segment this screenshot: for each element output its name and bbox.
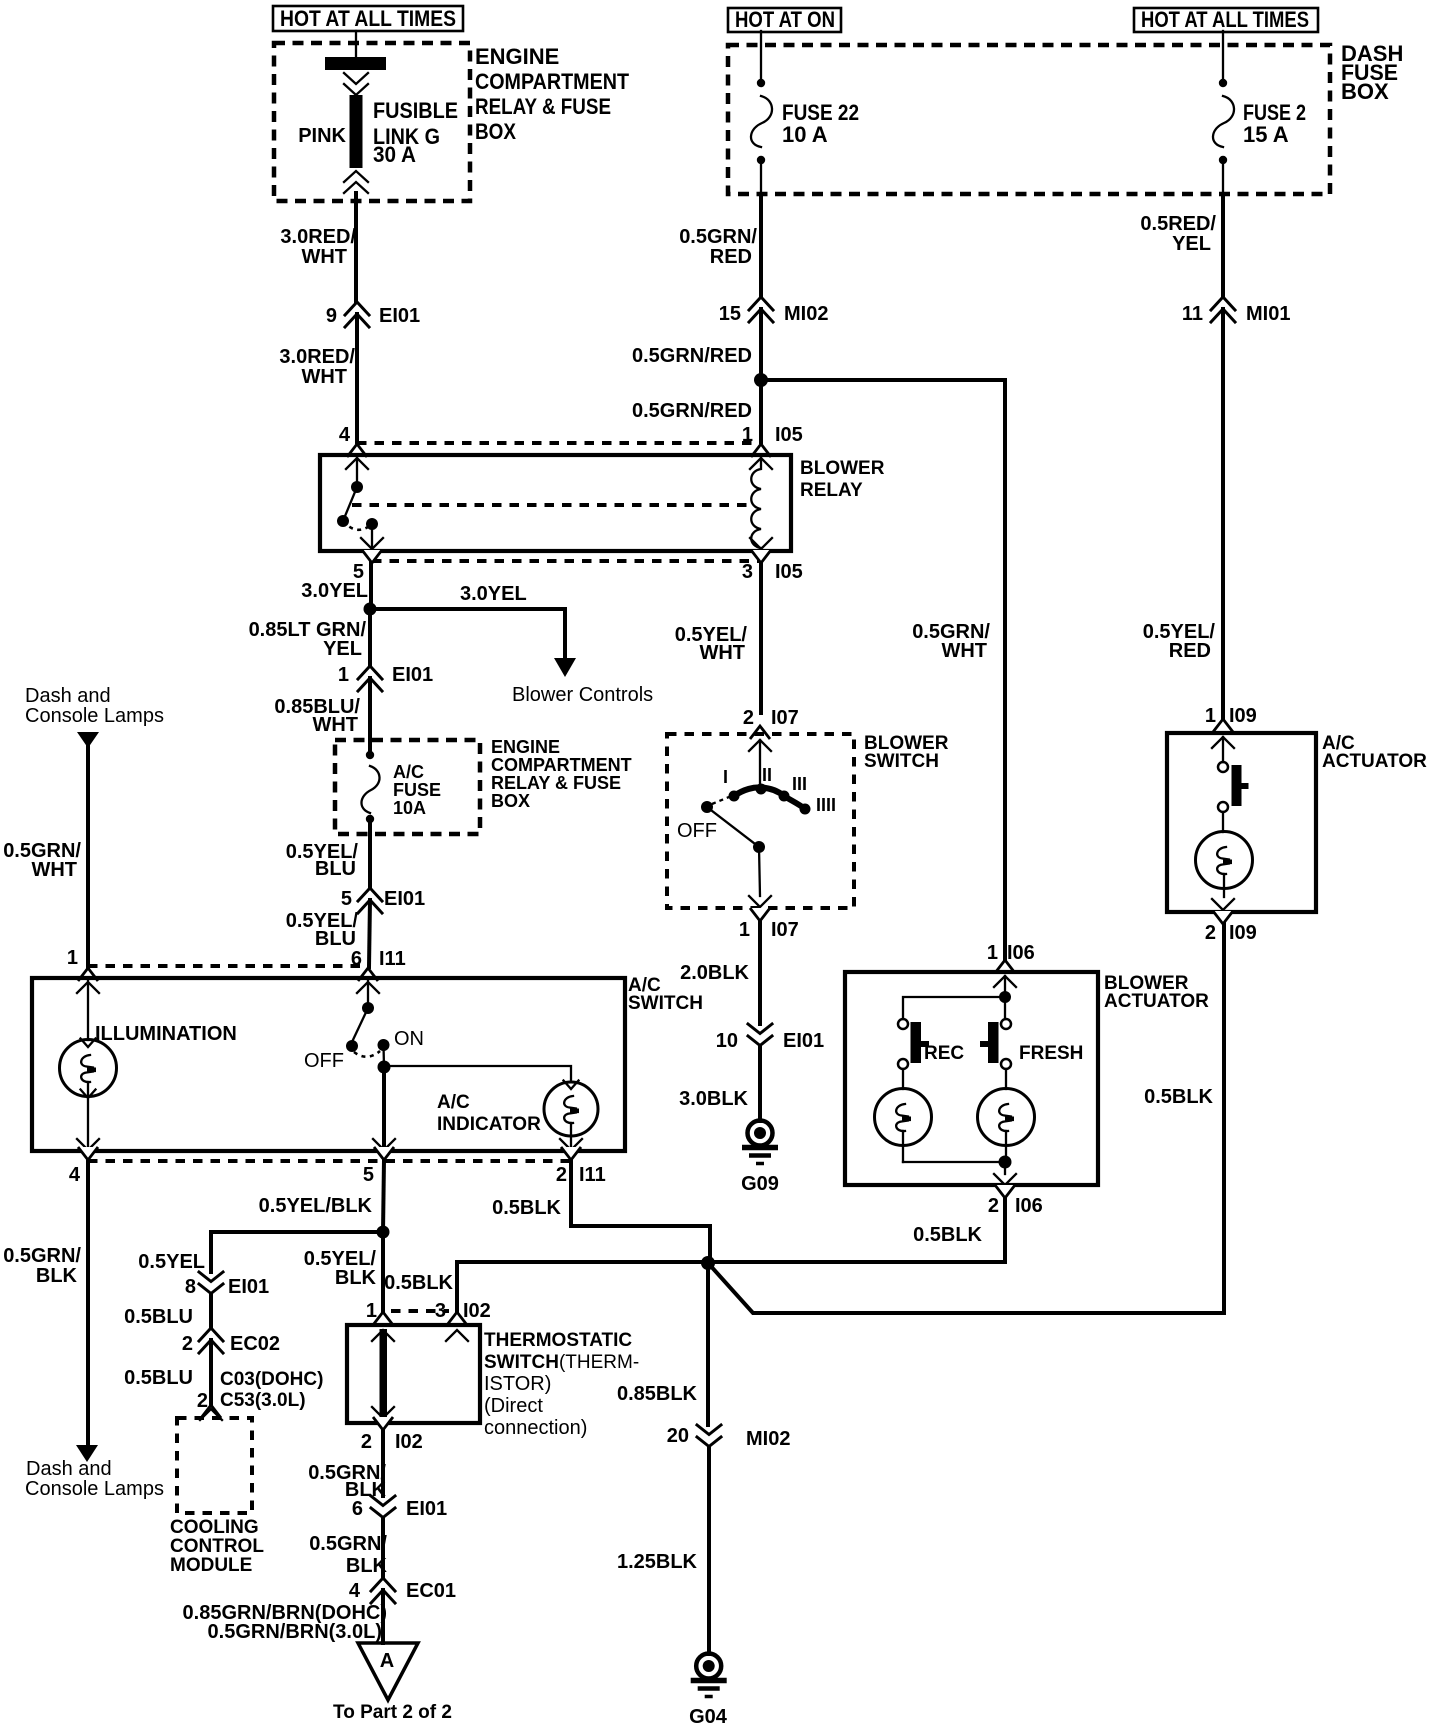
wire 0.5GRN/RED to junction (632, 309, 761, 442)
label A/C INDICATOR (437, 1092, 541, 1135)
svg-text:1: 1 (338, 664, 349, 686)
svg-text:3.0RED/: 3.0RED/ (279, 346, 355, 368)
svg-text:REC: REC (924, 1043, 964, 1064)
svg-text:RED: RED (710, 246, 752, 268)
connector C03(DOHC)/C53(3.0L) pin 2 (197, 1369, 324, 1420)
label BLOWER RELAY (800, 458, 885, 501)
svg-text:EC02: EC02 (230, 1333, 280, 1355)
connector MI02 pin 15 (719, 297, 829, 325)
svg-text:I11: I11 (579, 1164, 606, 1186)
blower relay pin 1 I05 (742, 424, 803, 469)
svg-text:C03(DOHC): C03(DOHC) (220, 1369, 323, 1390)
arrow from dash and console lamps (77, 732, 99, 748)
cooling control module (dashed box) (170, 1418, 264, 1576)
wire 0.5BLK from blower actuator (708, 1198, 1005, 1262)
dash fuse box (dashed) (728, 41, 1403, 194)
svg-text:I09: I09 (1229, 922, 1257, 944)
svg-text:ACTUATOR: ACTUATOR (1104, 991, 1209, 1012)
svg-text:RELAY & FUSE: RELAY & FUSE (491, 773, 621, 793)
svg-text:SWITCH: SWITCH (628, 993, 703, 1014)
svg-text:0.5YEL: 0.5YEL (138, 1251, 205, 1273)
node: junction 3.0YEL (364, 603, 377, 616)
A/C actuator switch (1218, 737, 1249, 832)
svg-text:1: 1 (1205, 705, 1216, 727)
thermostatic switch pin 1 (366, 1300, 393, 1325)
svg-text:2: 2 (182, 1333, 193, 1355)
svg-text:0.85BLK: 0.85BLK (617, 1383, 698, 1405)
svg-text:HOT AT ALL TIMES: HOT AT ALL TIMES (280, 6, 456, 31)
wire 0.5YEL branch to EI01 pin 8 (138, 1232, 383, 1273)
thermostatic switch connector dashed line (391, 1309, 449, 1313)
svg-text:0.5BLK: 0.5BLK (384, 1272, 453, 1294)
thermostatic switch pin 3 I02 (435, 1300, 491, 1341)
svg-text:ENGINE: ENGINE (475, 44, 559, 69)
wire 3.0BLK (679, 1046, 760, 1121)
wire 0.85LT GRN/YEL (249, 609, 370, 666)
connector EI01 pin 8 (185, 1272, 269, 1298)
svg-text:3.0YEL: 3.0YEL (460, 583, 527, 605)
svg-text:MODULE: MODULE (170, 1555, 252, 1576)
svg-text:I05: I05 (775, 424, 803, 446)
label Dash and Console Lamps (bottom) (25, 1458, 164, 1500)
wire 0.5YEL/WHT (675, 563, 761, 713)
svg-text:YEL: YEL (323, 638, 362, 660)
svg-text:Blower Controls: Blower Controls (512, 684, 653, 706)
svg-text:EI01: EI01 (379, 305, 420, 327)
label BLOWER SWITCH (864, 733, 949, 772)
svg-text:ILLUMINATION: ILLUMINATION (95, 1023, 237, 1045)
svg-text:A/C: A/C (393, 762, 424, 782)
blower relay coil (750, 458, 772, 549)
blower relay mechanical link (dashed) (352, 503, 749, 507)
engine compartment relay &amp; fuse box (dashed, fusible link) (274, 43, 629, 201)
svg-text:FUSE: FUSE (393, 780, 441, 800)
fuse 2 15A (1213, 79, 1306, 164)
A/C actuator pin 2 I09 (1205, 899, 1257, 944)
blower switch pin 2 I07 (743, 707, 799, 751)
svg-text:Console Lamps: Console Lamps (25, 1478, 164, 1500)
svg-text:connection): connection) (484, 1417, 587, 1439)
svg-text:0.5GRN/RED: 0.5GRN/RED (632, 400, 752, 422)
blower relay connector dashed line (top) (357, 441, 761, 445)
svg-text:I02: I02 (395, 1431, 423, 1453)
svg-text:II: II (762, 765, 772, 785)
svg-text:ON: ON (394, 1028, 424, 1050)
A/C switch pin 1 (67, 947, 99, 993)
svg-text:1: 1 (366, 1300, 377, 1322)
wire stub into fusible-link box (355, 31, 357, 57)
svg-text:ISTOR): ISTOR) (484, 1373, 551, 1395)
svg-text:III: III (792, 774, 807, 794)
wire 0.5GRN/WHT (illumination feed) (3, 746, 88, 967)
svg-text:I02: I02 (463, 1300, 491, 1322)
svg-text:15: 15 (719, 303, 741, 325)
wire 0.85BLK to MI02 pin 20 (617, 1263, 708, 1425)
svg-text:0.5BLK: 0.5BLK (492, 1197, 561, 1219)
svg-text:I06: I06 (1015, 1195, 1043, 1217)
svg-text:BLOWER: BLOWER (800, 458, 885, 479)
FRESH solenoid switch (980, 1019, 1083, 1069)
node: A/C switch output junction (378, 1045, 391, 1074)
connector EI01 pin 9 (326, 302, 420, 327)
svg-text:0.5GRN/: 0.5GRN/ (3, 1245, 81, 1267)
svg-text:2: 2 (556, 1164, 567, 1186)
svg-text:A: A (380, 1650, 394, 1672)
fusible link G 30A (298, 57, 458, 193)
svg-text:0.5GRN/BRN(3.0L): 0.5GRN/BRN(3.0L) (208, 1621, 382, 1643)
node: main ground junction (701, 1256, 715, 1270)
svg-text:I05: I05 (775, 561, 803, 583)
A/C switch connector dashed line (top) (88, 964, 368, 968)
A/C actuator pin 1 I09 (1205, 705, 1257, 748)
svg-text:WHT: WHT (31, 859, 77, 881)
svg-text:4: 4 (339, 424, 351, 446)
wire to A/C indicator (384, 1066, 571, 1082)
label A/C SWITCH (628, 975, 703, 1014)
svg-text:2: 2 (361, 1431, 372, 1453)
node: junction 0.5YEL/BLK branch (377, 1226, 390, 1239)
arrow to dash and console lamps (76, 1445, 98, 1462)
connector EI01 pin 6 (352, 1496, 447, 1520)
node: junction 0.5GRN/RED branch (754, 373, 768, 387)
svg-text:0.5BLK: 0.5BLK (1144, 1086, 1213, 1108)
svg-text:EI01: EI01 (228, 1276, 269, 1298)
label THERMOSTATIC SWITCH (THERMISTOR) (484, 1330, 639, 1439)
svg-text:RED: RED (1169, 640, 1211, 662)
wire 0.5BLU (upper) (124, 1294, 211, 1328)
svg-text:ACTUATOR: ACTUATOR (1322, 751, 1427, 772)
svg-text:1: 1 (739, 919, 750, 941)
svg-text:Dash and: Dash and (25, 685, 111, 707)
wire 0.5YEL/BLU (upper) (286, 819, 370, 888)
svg-text:FRESH: FRESH (1019, 1043, 1083, 1064)
svg-text:MI01: MI01 (1246, 303, 1290, 325)
svg-text:2: 2 (1205, 922, 1216, 944)
svg-text:BOX: BOX (475, 119, 516, 144)
wire 0.5BLK horizontal to thermostatic switch pin 3 (384, 1262, 708, 1311)
thermostatic switch pin 2 I02 (361, 1417, 423, 1453)
wire stub below fuse 2 (1222, 160, 1224, 194)
svg-text:I07: I07 (771, 707, 799, 729)
svg-text:0.5BLU: 0.5BLU (124, 1306, 193, 1328)
REC solenoid switch (898, 1019, 964, 1069)
svg-text:BOX: BOX (491, 791, 530, 811)
svg-text:CONTROL: CONTROL (170, 1536, 264, 1557)
svg-text:G04: G04 (689, 1706, 728, 1728)
svg-text:HOT AT ALL TIMES: HOT AT ALL TIMES (1141, 7, 1309, 32)
blower actuator pin 1 I06 (987, 942, 1035, 987)
wire 0.85GRN/BRN(DOHC) / 0.5GRN/BRN(3.0L) (183, 1590, 387, 1643)
A/C switch pin 2 I11 (556, 1139, 606, 1186)
A/C switch pin 5 (363, 1139, 395, 1186)
wire 0.5GRN/WHT branch to blower actuator (761, 380, 1005, 960)
svg-text:COOLING: COOLING (170, 1517, 259, 1538)
svg-text:0.5BLU: 0.5BLU (124, 1367, 193, 1389)
svg-text:EI01: EI01 (392, 664, 433, 686)
svg-text:3.0BLK: 3.0BLK (679, 1088, 748, 1110)
ground G09 (741, 1121, 779, 1196)
svg-text:BLK: BLK (346, 1555, 388, 1577)
svg-text:G09: G09 (741, 1173, 779, 1195)
svg-text:INDICATOR: INDICATOR (437, 1114, 541, 1135)
svg-text:Console Lamps: Console Lamps (25, 705, 164, 727)
svg-text:MI02: MI02 (746, 1428, 790, 1450)
svg-text:WHT: WHT (941, 640, 987, 662)
fuse 22 10A (751, 79, 859, 164)
connector EI01 pin 5 (341, 888, 425, 913)
off-page connector A (to part 2) (333, 1643, 452, 1723)
svg-text:BLU: BLU (315, 858, 356, 880)
svg-text:COMPARTMENT: COMPARTMENT (475, 69, 629, 94)
svg-text:COMPARTMENT: COMPARTMENT (491, 755, 632, 775)
svg-text:SWITCH: SWITCH (864, 751, 939, 772)
label HOT AT ALL TIMES (right) (1134, 7, 1318, 32)
svg-text:10 A: 10 A (782, 122, 828, 147)
blower relay switch (337, 458, 383, 549)
label Dash and Console Lamps (top) (25, 685, 164, 727)
svg-text:1.25BLK: 1.25BLK (617, 1551, 698, 1573)
wire 0.5BLU (lower) (124, 1340, 211, 1405)
svg-text:6: 6 (351, 948, 362, 970)
svg-text:4: 4 (349, 1580, 361, 1602)
svg-text:MI02: MI02 (784, 303, 828, 325)
svg-text:3: 3 (435, 1300, 446, 1322)
connector EI01 pin 10 (716, 1024, 824, 1052)
svg-text:1: 1 (742, 424, 753, 446)
svg-text:I06: I06 (1007, 942, 1035, 964)
wire 0.5RED/YEL (1140, 194, 1223, 297)
blower switch pin 1 I07 (739, 847, 799, 941)
blower relay connector dashed line (bottom) (372, 559, 761, 563)
blower relay box (320, 455, 791, 551)
label HOT AT ON (728, 7, 841, 32)
svg-text:OFF: OFF (304, 1050, 344, 1072)
arrow to blower controls (512, 658, 653, 706)
blower actuator box (845, 972, 1098, 1185)
svg-text:BOX: BOX (1341, 79, 1389, 104)
A/C switch connector dashed line (bottom) (88, 1159, 571, 1163)
svg-text:I11: I11 (379, 948, 406, 970)
wire 0.85BLU/WHT (274, 678, 370, 755)
blower relay pin 3 I05 (742, 550, 803, 583)
svg-text:2: 2 (988, 1195, 999, 1217)
svg-text:I07: I07 (771, 919, 799, 941)
svg-text:C53(3.0L): C53(3.0L) (220, 1390, 306, 1411)
svg-text:WHT: WHT (301, 366, 347, 388)
svg-text:(Direct: (Direct (484, 1395, 543, 1417)
wire 0.5YEL/BLK from pin 5 (259, 1160, 384, 1232)
svg-text:IIII: IIII (816, 795, 836, 815)
A/C fuse 10A (361, 751, 441, 823)
svg-text:BLK: BLK (335, 1267, 377, 1289)
svg-text:I09: I09 (1229, 705, 1257, 727)
svg-text:FUSIBLE: FUSIBLE (373, 98, 458, 123)
svg-text:To Part 2 of 2: To Part 2 of 2 (333, 1702, 452, 1723)
svg-text:3: 3 (742, 561, 753, 583)
svg-text:1: 1 (987, 942, 998, 964)
svg-text:10A: 10A (393, 798, 426, 818)
svg-text:WHT: WHT (301, 246, 347, 268)
connector MI01 pin 11 (1182, 297, 1291, 325)
svg-text:A/C: A/C (437, 1092, 470, 1113)
svg-text:HOT AT ON: HOT AT ON (735, 7, 835, 32)
svg-text:0.5YEL/BLK: 0.5YEL/BLK (259, 1195, 373, 1217)
svg-text:PINK: PINK (298, 125, 346, 147)
connector MI02 pin 20 (667, 1425, 791, 1450)
svg-text:3.0YEL: 3.0YEL (301, 580, 368, 602)
blower actuator pin 2 I06 (988, 1174, 1043, 1217)
ground G04 (689, 1654, 728, 1729)
A/C switch pin 4 (69, 1139, 99, 1186)
wire 0.5GRN/BLK (lower) (309, 1518, 387, 1578)
svg-text:RELAY: RELAY (800, 480, 863, 501)
wire 0.5YEL/RED to A/C actuator (1143, 309, 1223, 718)
A/C switch pin 6 I11 (351, 948, 406, 993)
wire 3.0YEL branch to blower controls (370, 583, 565, 659)
svg-text:30 A: 30 A (373, 142, 416, 167)
wire 2.0BLK (680, 921, 760, 1024)
blower switch rotary contacts (723, 740, 836, 815)
svg-text:2: 2 (743, 707, 754, 729)
wire stub into dash fuse box (fuse 2) (1222, 31, 1224, 80)
blower switch box (dashed) (667, 734, 854, 908)
wire 0.5GRN/BLK (upper) (308, 1430, 386, 1501)
engine compartment relay &amp; fuse box (dashed, A/C fuse) (335, 737, 632, 834)
svg-text:4: 4 (69, 1164, 81, 1186)
wire 0.5BLK from pin 2 I11 (492, 1160, 710, 1262)
wire 0.5GRN/BLK (left column) (3, 1160, 88, 1445)
label A/C ACTUATOR (1322, 733, 1427, 772)
svg-text:BLK: BLK (36, 1265, 78, 1287)
svg-text:ENGINE: ENGINE (491, 737, 560, 757)
svg-text:BLU: BLU (315, 928, 356, 950)
wire A/C switch pin 5 (382, 1067, 386, 1150)
svg-text:EI01: EI01 (406, 1498, 447, 1520)
blower switch OFF position and arm (677, 797, 765, 853)
svg-text:6: 6 (352, 1498, 363, 1520)
svg-text:WHT: WHT (699, 642, 745, 664)
wire stub into dash fuse box (fuse 22) (760, 31, 762, 80)
connector EI01 pin 1 (338, 664, 433, 691)
svg-text:15 A: 15 A (1243, 122, 1289, 147)
A/C indicator lamp (544, 1081, 598, 1151)
svg-text:3.0RED/: 3.0RED/ (280, 226, 356, 248)
svg-text:8: 8 (185, 1276, 196, 1298)
svg-text:OFF: OFF (677, 820, 717, 842)
thermostatic switch element (direct connection bar) (372, 1329, 394, 1418)
svg-text:THERMOSTATIC: THERMOSTATIC (484, 1330, 632, 1351)
label BLOWER ACTUATOR (1104, 973, 1209, 1012)
svg-text:WHT: WHT (312, 714, 358, 736)
wire 0.5YEL/BLK to thermostatic switch (304, 1232, 383, 1311)
svg-text:9: 9 (326, 305, 337, 327)
svg-text:0.5RED/: 0.5RED/ (1140, 213, 1216, 235)
REC lamp (875, 1069, 932, 1162)
illumination lamp (60, 981, 117, 1150)
svg-text:SWITCH(THERM-: SWITCH(THERM- (484, 1352, 639, 1373)
wire 0.5GRN/RED (above MI02) (679, 194, 761, 297)
svg-text:EI01: EI01 (384, 888, 425, 910)
wire 3.0YEL below relay (301, 563, 371, 609)
svg-text:EI01: EI01 (783, 1030, 824, 1052)
svg-text:11: 11 (1182, 303, 1203, 325)
A/C switch box (32, 978, 625, 1151)
blower relay pin 5 (353, 550, 382, 583)
A/C switch contacts OFF/ON (304, 981, 424, 1072)
wire stub below fuse 22 (760, 160, 762, 194)
wire 0.5YEL/BLU (lower) (286, 900, 370, 967)
svg-text:RELAY & FUSE: RELAY & FUSE (475, 94, 611, 119)
svg-text:2.0BLK: 2.0BLK (680, 962, 749, 984)
A/C actuator lamp (1196, 832, 1253, 898)
blower relay pin 4 (339, 424, 368, 469)
thermostatic switch box (347, 1325, 480, 1423)
svg-text:0.5BLK: 0.5BLK (913, 1224, 982, 1246)
wire 3.0RED/WHT (lower) (279, 314, 357, 442)
svg-text:20: 20 (667, 1425, 689, 1447)
svg-text:0.5GRN/RED: 0.5GRN/RED (632, 345, 752, 367)
svg-text:5: 5 (341, 888, 352, 910)
svg-text:0.5GRN/: 0.5GRN/ (309, 1533, 387, 1555)
blower actuator internal wiring (top) (903, 976, 1011, 1019)
wire 3.0RED/WHT (upper) (280, 193, 356, 301)
svg-text:I: I (723, 767, 728, 787)
wire 1.25BLK to ground (617, 1447, 709, 1654)
svg-text:Dash and: Dash and (26, 1458, 112, 1480)
svg-text:EC01: EC01 (406, 1580, 456, 1602)
blower actuator internal wiring (bottom) (903, 1156, 1012, 1175)
svg-text:YEL: YEL (1172, 233, 1211, 255)
svg-text:0.5GRN/: 0.5GRN/ (679, 226, 757, 248)
svg-text:1: 1 (67, 947, 78, 969)
FRESH lamp (978, 1069, 1035, 1162)
svg-text:10: 10 (716, 1030, 738, 1052)
connector EC02 pin 2 (182, 1328, 280, 1355)
label HOT AT ALL TIMES (left) (273, 6, 463, 31)
connector EC01 pin 4 (349, 1578, 456, 1603)
wire 0.5BLK from A/C actuator (708, 924, 1224, 1313)
A/C actuator box (1167, 733, 1316, 912)
svg-text:5: 5 (363, 1164, 374, 1186)
svg-text:2: 2 (197, 1390, 208, 1412)
